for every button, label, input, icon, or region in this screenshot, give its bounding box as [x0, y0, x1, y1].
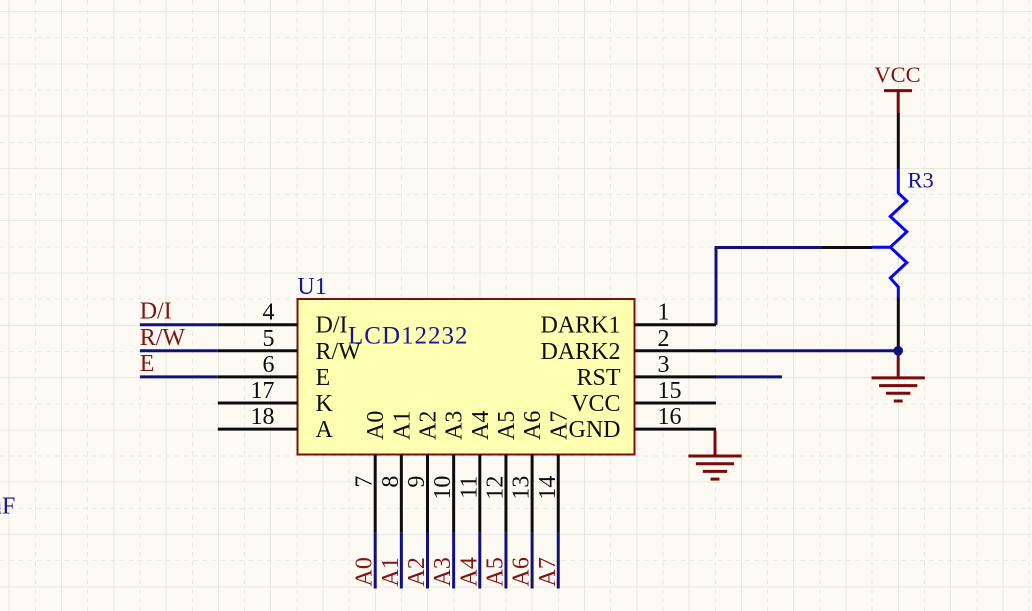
svg-text:A2: A2 — [416, 411, 442, 440]
svg-text:14: 14 — [535, 476, 561, 500]
svg-text:A0: A0 — [363, 411, 389, 440]
svg-text:A5: A5 — [482, 557, 508, 586]
svg-text:4: 4 — [263, 300, 275, 326]
svg-text:R3: R3 — [908, 168, 934, 193]
svg-text:16: 16 — [658, 404, 682, 430]
svg-text:A4: A4 — [468, 411, 494, 440]
svg-text:A7: A7 — [535, 557, 561, 586]
svg-text:R/W: R/W — [316, 339, 362, 365]
svg-text:LCD12232: LCD12232 — [348, 323, 469, 350]
svg-text:A3: A3 — [442, 411, 468, 440]
svg-text:18: 18 — [251, 404, 275, 430]
svg-text:17: 17 — [251, 378, 275, 404]
svg-text:DARK1: DARK1 — [540, 313, 620, 339]
svg-text:15: 15 — [658, 378, 682, 404]
svg-text:K: K — [316, 391, 334, 417]
svg-text:DARK2: DARK2 — [540, 339, 620, 365]
svg-text:R/W: R/W — [140, 325, 186, 351]
svg-text:1: 1 — [658, 300, 670, 326]
svg-text:A1: A1 — [389, 411, 415, 440]
svg-text:A4: A4 — [456, 557, 482, 586]
svg-text:5: 5 — [263, 326, 275, 352]
svg-text:8: 8 — [378, 476, 404, 488]
svg-text:A0: A0 — [352, 557, 378, 586]
svg-text:3: 3 — [658, 352, 670, 378]
svg-text:11: 11 — [456, 476, 482, 499]
svg-text:A1: A1 — [378, 557, 404, 586]
svg-text:VCC: VCC — [874, 62, 920, 87]
svg-text:VCC: VCC — [571, 391, 620, 417]
svg-text:9: 9 — [404, 476, 430, 488]
svg-text:7: 7 — [352, 476, 378, 488]
svg-text:uF: uF — [0, 494, 15, 520]
svg-text:12: 12 — [482, 476, 508, 500]
svg-text:6: 6 — [263, 352, 275, 378]
svg-text:2: 2 — [658, 326, 670, 352]
svg-text:A2: A2 — [404, 557, 430, 586]
svg-text:D/I: D/I — [316, 313, 348, 339]
svg-text:A3: A3 — [430, 557, 456, 586]
svg-text:GND: GND — [569, 417, 621, 443]
svg-text:A7: A7 — [546, 411, 572, 440]
svg-text:E: E — [316, 365, 331, 391]
svg-text:A6: A6 — [509, 557, 535, 586]
svg-text:E: E — [140, 351, 155, 377]
svg-text:RST: RST — [576, 365, 620, 391]
svg-text:U1: U1 — [297, 274, 326, 300]
svg-text:13: 13 — [509, 476, 535, 500]
svg-text:D/I: D/I — [140, 299, 172, 325]
svg-text:A6: A6 — [520, 411, 546, 440]
svg-text:A5: A5 — [494, 411, 520, 440]
svg-text:A: A — [316, 417, 334, 443]
svg-text:10: 10 — [430, 476, 456, 500]
